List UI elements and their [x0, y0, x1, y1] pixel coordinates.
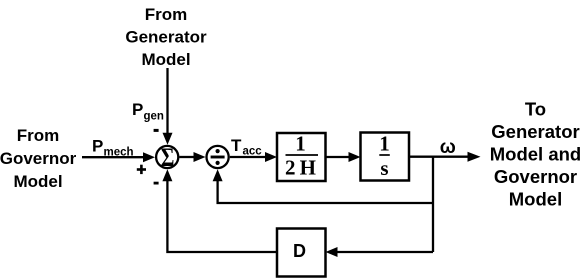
svg-text:Generator: Generator [491, 121, 579, 142]
svg-text:1: 1 [379, 132, 390, 156]
svg-text:gen: gen [144, 111, 164, 123]
svg-text:2 H: 2 H [285, 156, 316, 180]
wire D block output to summer bottom with arrowhead [162, 169, 277, 252]
label minus sign bottom of summer [154, 182, 159, 185]
label plus sign at summer [137, 165, 146, 174]
summing junction (sigma circle) [156, 144, 178, 173]
svg-text:Model and: Model and [490, 144, 581, 165]
svg-text:P: P [92, 137, 103, 156]
wire junction drop from output line [432, 157, 434, 252]
svg-text:Generator: Generator [125, 28, 207, 47]
svg-text:Governor: Governor [494, 166, 577, 187]
label Pmech [92, 137, 134, 159]
svg-text:Governor: Governor [0, 149, 77, 168]
svg-text:acc: acc [243, 146, 263, 158]
wire Pmech input with arrowhead [82, 152, 155, 162]
node From Governor Model (left label) [0, 126, 77, 191]
wire feedback into D block with arrowhead [326, 247, 434, 257]
wire summer to divider with arrowhead [179, 152, 205, 162]
svg-text:Model: Model [13, 172, 62, 191]
wire feedback to divider bottom with arrowhead [213, 169, 433, 203]
label Pgen [132, 100, 164, 123]
wire Pgen input from top with arrowhead [163, 68, 173, 145]
svg-text:To: To [525, 99, 546, 120]
block 1/s [361, 132, 410, 181]
svg-text:T: T [231, 136, 242, 155]
wire output omega with arrowhead [409, 152, 481, 162]
svg-text:Model: Model [141, 50, 190, 69]
node To Generator Model and Governor Model (right label) [490, 99, 581, 210]
svg-text:From: From [145, 5, 188, 24]
svg-text:P: P [132, 100, 143, 119]
svg-text:s: s [380, 156, 388, 180]
block 1/2H [277, 132, 326, 182]
svg-text:mech: mech [104, 147, 134, 159]
node From Generator Model (top label) [125, 5, 207, 69]
svg-text:ω: ω [440, 137, 456, 158]
divider junction (divide circle) [207, 146, 229, 168]
wire divider to 1/2H block with arrowhead [230, 152, 277, 162]
svg-text:1: 1 [295, 132, 306, 156]
svg-text:Σ: Σ [161, 144, 175, 173]
label Tacc [231, 136, 262, 158]
svg-text:From: From [17, 126, 60, 145]
wire 1/2H to 1/s block with arrowhead [326, 152, 361, 162]
svg-text:D: D [293, 241, 306, 261]
label minus sign top of summer [154, 129, 159, 132]
svg-text:Model: Model [509, 189, 562, 210]
block D [277, 229, 326, 277]
